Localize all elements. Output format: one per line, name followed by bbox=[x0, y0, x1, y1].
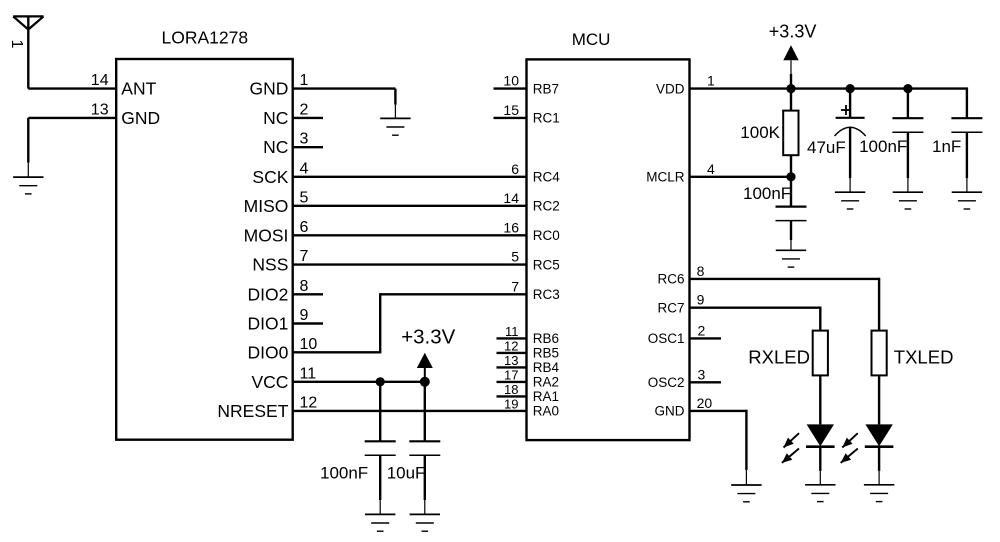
svg-text:1: 1 bbox=[300, 72, 309, 89]
wire C4 to ground bbox=[907, 132, 909, 178]
resistor 100K bbox=[783, 89, 798, 177]
pin 2 NC (LORA) bbox=[263, 101, 323, 128]
svg-text:8: 8 bbox=[300, 278, 309, 295]
svg-text:RC7: RC7 bbox=[657, 301, 684, 316]
wire VCC to C7 bbox=[379, 382, 381, 442]
svg-text:RXLED: RXLED bbox=[748, 347, 810, 368]
pin 2 OSC1 (MCU right) bbox=[648, 322, 721, 346]
svg-text:100nF: 100nF bbox=[320, 464, 368, 483]
svg-text:10: 10 bbox=[503, 73, 519, 89]
pin 5 RC5 (MCU left) bbox=[511, 249, 560, 273]
wire VDD pin 1 rail bbox=[690, 87, 967, 118]
wire MCLR junction to C2 bbox=[790, 177, 792, 207]
svg-text:RC1: RC1 bbox=[533, 111, 560, 126]
svg-text:5: 5 bbox=[511, 249, 519, 265]
svg-text:ANT: ANT bbox=[121, 79, 156, 99]
wire GND pin 13 to ground bbox=[28, 118, 116, 177]
svg-text:6: 6 bbox=[300, 219, 309, 236]
wire RC6 pin 8 to TXLED resistor bbox=[690, 278, 880, 331]
ground (C2) bbox=[776, 250, 806, 267]
svg-text:10uF: 10uF bbox=[387, 464, 426, 483]
ground (C5) bbox=[952, 192, 982, 209]
svg-text:DIO1: DIO1 bbox=[248, 314, 289, 334]
svg-text:9: 9 bbox=[697, 292, 705, 308]
wire C8 to ground bbox=[424, 455, 426, 500]
junction VCC / C-10uF / +3.3V bbox=[420, 377, 430, 387]
IC LORA1278 bbox=[116, 59, 293, 440]
ground (MCU GND) bbox=[731, 485, 761, 502]
svg-text:7: 7 bbox=[300, 248, 309, 265]
svg-text:RA2: RA2 bbox=[533, 375, 559, 390]
svg-text:NRESET: NRESET bbox=[217, 401, 288, 421]
wire NRESET to RA0 bbox=[293, 410, 527, 412]
pin 10 DIO0 (LORA) bbox=[248, 336, 318, 363]
svg-text:GND: GND bbox=[655, 404, 685, 419]
svg-text:8: 8 bbox=[697, 263, 705, 279]
pin 11 RB6 (MCU left bus) bbox=[497, 324, 560, 346]
svg-text:GND: GND bbox=[250, 79, 289, 99]
svg-text:RB5: RB5 bbox=[533, 346, 559, 361]
svg-text:+3.3V: +3.3V bbox=[401, 326, 455, 349]
svg-text:VDD: VDD bbox=[656, 81, 685, 96]
svg-text:12: 12 bbox=[300, 394, 318, 411]
svg-text:4: 4 bbox=[707, 161, 715, 177]
capacitor C5 1nF bbox=[951, 118, 982, 132]
svg-text:TXLED: TXLED bbox=[894, 347, 954, 368]
junction VCC / C-100nF bbox=[376, 377, 385, 386]
wire RXLED resistor to LED bbox=[819, 375, 821, 424]
LED RXLED diode bbox=[806, 424, 835, 446]
pin 8 DIO2 (LORA) bbox=[248, 278, 323, 305]
capacitor C3 47uF polarized bbox=[835, 105, 866, 136]
pin 5 MISO (LORA) bbox=[244, 189, 309, 216]
wire MOSI to RC0 bbox=[293, 234, 527, 236]
svg-text:RC6: RC6 bbox=[657, 272, 684, 287]
pin 12 RB5 (MCU left bus) bbox=[497, 339, 560, 361]
svg-text:3: 3 bbox=[698, 366, 706, 382]
pin 15 RC1 (MCU left) bbox=[494, 102, 560, 126]
pin 7 RC3 (MCU left) bbox=[511, 278, 560, 302]
svg-text:1: 1 bbox=[8, 40, 25, 49]
IC MCU bbox=[527, 59, 690, 440]
wire +3.3V junction to C8 bbox=[424, 382, 426, 442]
svg-text:1nF: 1nF bbox=[932, 137, 961, 156]
junction VDD / C-47uF bbox=[846, 84, 855, 93]
wire antenna to ANT pin 14 bbox=[28, 87, 116, 89]
wire VDD to C4 bbox=[907, 89, 909, 119]
svg-text:13: 13 bbox=[504, 353, 518, 368]
pin 19 RA0 (MCU left bus) bbox=[504, 397, 559, 419]
wire GND pin 20 to ground bbox=[690, 410, 747, 485]
svg-text:RC3: RC3 bbox=[533, 287, 560, 302]
resistor TXLED bbox=[872, 331, 887, 376]
pin 13 RB4 (MCU left bus) bbox=[497, 353, 560, 375]
svg-text:RC2: RC2 bbox=[533, 199, 560, 214]
svg-text:7: 7 bbox=[511, 278, 519, 294]
ground (LORA pin 1) bbox=[380, 118, 410, 135]
svg-text:2: 2 bbox=[300, 101, 309, 118]
svg-text:RA1: RA1 bbox=[533, 389, 559, 404]
svg-text:12: 12 bbox=[504, 339, 518, 354]
LED RXLED emission arrows bbox=[782, 433, 799, 463]
power +3.3V (top) bbox=[769, 22, 817, 89]
ground (C4) bbox=[893, 192, 923, 209]
svg-text:18: 18 bbox=[504, 382, 518, 397]
pin 1 VDD (MCU right) bbox=[656, 73, 715, 97]
wire TXLED resistor to LED bbox=[878, 375, 880, 424]
junction MCLR / C2-100nF bbox=[786, 172, 795, 181]
svg-text:2: 2 bbox=[698, 322, 706, 338]
svg-text:9: 9 bbox=[300, 307, 309, 324]
svg-text:MCU: MCU bbox=[572, 30, 611, 49]
pin 12 NRESET (LORA) bbox=[217, 394, 317, 421]
pin 14 ANT bbox=[91, 72, 157, 99]
svg-text:4: 4 bbox=[300, 160, 309, 177]
svg-text:+3.3V: +3.3V bbox=[769, 22, 817, 42]
pin 17 RA2 (MCU left bus) bbox=[497, 368, 560, 390]
antenna bbox=[13, 16, 43, 88]
wire GND pin 1 to ground bbox=[293, 89, 396, 119]
svg-text:DIO2: DIO2 bbox=[248, 284, 289, 304]
svg-text:RB4: RB4 bbox=[533, 360, 560, 375]
svg-text:MCLR: MCLR bbox=[646, 170, 685, 185]
resistor RXLED bbox=[813, 331, 828, 376]
svg-text:OSC2: OSC2 bbox=[648, 375, 685, 390]
svg-text:14: 14 bbox=[91, 72, 109, 89]
svg-text:5: 5 bbox=[300, 189, 309, 206]
ground (C8) bbox=[410, 514, 440, 531]
svg-text:NC: NC bbox=[263, 108, 288, 128]
pin 20 GND (MCU right) bbox=[655, 395, 713, 419]
wire C5 to ground bbox=[966, 132, 968, 178]
svg-text:RA0: RA0 bbox=[533, 404, 559, 419]
pin 10 RB7 (MCU left) bbox=[494, 73, 560, 97]
svg-text:RB6: RB6 bbox=[533, 331, 559, 346]
wire LED RXLED to ground bbox=[819, 447, 821, 471]
pin 4 MCLR (MCU right) bbox=[646, 161, 715, 185]
svg-text:RC5: RC5 bbox=[533, 257, 560, 272]
svg-text:14: 14 bbox=[503, 190, 519, 206]
svg-text:17: 17 bbox=[504, 368, 518, 383]
pin 4 SCK (LORA) bbox=[252, 160, 308, 187]
pin 9 DIO1 (LORA) bbox=[248, 307, 323, 334]
svg-text:1: 1 bbox=[707, 73, 715, 89]
svg-text:OSC1: OSC1 bbox=[648, 331, 685, 346]
svg-text:13: 13 bbox=[91, 101, 109, 118]
svg-text:RC0: RC0 bbox=[533, 228, 560, 243]
svg-text:DIO0: DIO0 bbox=[248, 342, 289, 362]
capacitor C7 100nF bbox=[365, 441, 396, 455]
svg-text:11: 11 bbox=[300, 365, 317, 382]
wire LED TXLED to ground bbox=[878, 447, 880, 471]
svg-text:10: 10 bbox=[300, 336, 318, 353]
capacitor C2 100nF bbox=[776, 207, 807, 221]
pin 3 NC (LORA) bbox=[263, 131, 323, 158]
wire MCLR pin 4 to R-100K bbox=[690, 176, 792, 178]
wire RC7 pin 9 to RXLED resistor bbox=[690, 307, 821, 331]
wire NSS to RC5 bbox=[293, 263, 527, 265]
svg-text:3: 3 bbox=[300, 131, 309, 148]
LED TXLED diode bbox=[865, 424, 894, 446]
svg-text:RC4: RC4 bbox=[533, 170, 560, 185]
ground (C7) bbox=[365, 514, 395, 531]
svg-text:47uF: 47uF bbox=[807, 138, 846, 157]
svg-text:VCC: VCC bbox=[251, 372, 288, 392]
pin 6 MOSI (LORA) bbox=[244, 219, 309, 246]
svg-text:16: 16 bbox=[503, 219, 519, 235]
pin 18 RA1 (MCU left bus) bbox=[497, 382, 560, 404]
wire SCK to RC4 bbox=[293, 176, 527, 178]
svg-text:15: 15 bbox=[503, 102, 519, 118]
wire DIO0 to RC3 bbox=[293, 293, 527, 353]
ground (C3) bbox=[835, 192, 865, 209]
ground (TXLED) bbox=[864, 485, 894, 502]
ground (RXLED) bbox=[805, 485, 835, 502]
pin 11 VCC (LORA) bbox=[251, 365, 316, 392]
pin 16 RC0 (MCU left) bbox=[503, 219, 559, 243]
svg-text:NSS: NSS bbox=[252, 255, 288, 275]
wire MISO to RC2 bbox=[293, 205, 527, 207]
wire C2 to ground bbox=[790, 221, 792, 240]
svg-text:19: 19 bbox=[504, 397, 518, 412]
svg-text:20: 20 bbox=[697, 395, 713, 411]
capacitor C4 100nF bbox=[892, 118, 923, 132]
svg-text:NC: NC bbox=[263, 137, 288, 157]
svg-text:MOSI: MOSI bbox=[244, 225, 289, 245]
capacitor C8 10uF bbox=[409, 441, 440, 455]
svg-text:100nF: 100nF bbox=[743, 184, 791, 203]
pin 14 RC2 (MCU left) bbox=[503, 190, 559, 214]
junction VDD / R-100K bbox=[786, 84, 795, 93]
wire C3 to ground bbox=[849, 128, 851, 179]
pin 6 RC4 (MCU left) bbox=[511, 161, 560, 185]
svg-text:RB7: RB7 bbox=[533, 81, 559, 96]
pin 7 NSS (LORA) bbox=[252, 248, 308, 275]
pin 9 RC7 (MCU right) bbox=[657, 292, 704, 316]
svg-text:LORA1278: LORA1278 bbox=[162, 28, 249, 48]
power +3.3V (bottom) bbox=[401, 326, 455, 382]
wire C7 to ground bbox=[379, 455, 381, 500]
svg-text:MISO: MISO bbox=[244, 196, 289, 216]
pin 8 RC6 (MCU right) bbox=[657, 263, 704, 287]
ground (antenna) bbox=[13, 177, 43, 194]
pin 13 GND (LORA left) bbox=[91, 101, 160, 128]
junction VDD / C-100nF bbox=[903, 84, 912, 93]
pin 1 GND (LORA) bbox=[250, 72, 309, 99]
pin 3 OSC2 (MCU right) bbox=[648, 366, 721, 390]
wire VDD to C3 bbox=[849, 89, 851, 118]
svg-text:11: 11 bbox=[505, 324, 519, 339]
svg-text:6: 6 bbox=[511, 161, 519, 177]
wire VCC pin 11 rail bbox=[293, 381, 425, 383]
svg-text:100nF: 100nF bbox=[859, 137, 907, 156]
svg-text:100K: 100K bbox=[740, 123, 780, 142]
svg-text:SCK: SCK bbox=[252, 167, 288, 187]
LED TXLED emission arrows bbox=[841, 433, 858, 463]
svg-text:GND: GND bbox=[121, 108, 160, 128]
